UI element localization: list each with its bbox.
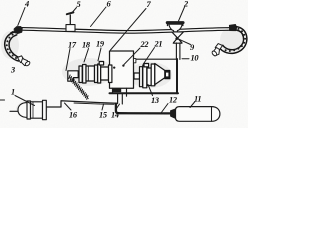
node: fitting below block xyxy=(113,88,121,92)
svg-text:19: 19 xyxy=(96,40,105,49)
node: spiral dots on left hose xyxy=(6,34,17,59)
svg-text:22: 22 xyxy=(140,40,149,49)
node: flange pair 19 xyxy=(95,65,98,83)
wire: leader 1 xyxy=(15,96,35,106)
wire: leader 13 xyxy=(148,85,153,96)
spring 15 (coiled flexible shaft) xyxy=(69,75,89,99)
box: chamber around atomizer xyxy=(110,59,179,93)
node: nub on block right edge xyxy=(134,59,136,63)
node: fitting at right pipe end xyxy=(229,24,237,30)
node: left stub xyxy=(10,110,18,112)
node: top nub (target of 19) xyxy=(99,62,103,66)
node: right flange at block xyxy=(109,65,112,83)
wire: leader 16 xyxy=(65,103,72,110)
wire: leader 7 xyxy=(111,9,147,51)
node: right hose nozzle xyxy=(211,44,222,57)
wire: leader 21 xyxy=(143,48,155,65)
svg-text:18: 18 xyxy=(82,41,91,50)
svg-text:14: 14 xyxy=(111,111,119,120)
wire 16: flexible shaft from motor xyxy=(47,101,117,107)
pipe 12: corner down to tank line xyxy=(116,104,171,114)
pipe 14: vertical pair below box xyxy=(117,93,119,103)
node: top nub xyxy=(144,64,149,67)
svg-text:11: 11 xyxy=(194,95,201,104)
wire: main horizontal pipe 6 (double line) xyxy=(22,28,232,34)
svg-text:1: 1 xyxy=(11,88,15,97)
node: right cylinder xyxy=(101,67,109,80)
node: dome end xyxy=(18,103,28,118)
svg-text:2: 2 xyxy=(183,0,188,9)
node: pump body xyxy=(86,66,95,81)
wire: right flexible hose 8 (outer+inner curve) xyxy=(219,27,247,54)
wire: left flexible hose 3 (outer+inner curve) xyxy=(5,32,21,61)
node: left hose nozzle xyxy=(18,56,31,67)
wire: lower cable line xyxy=(74,103,114,104)
tank 11 xyxy=(176,107,220,122)
svg-text:10: 10 xyxy=(191,54,200,63)
node: elbow fitting (17) xyxy=(68,71,78,81)
wire: leader 22 xyxy=(124,48,140,65)
node: shaft xyxy=(134,73,140,79)
wire: leader 6 xyxy=(91,7,107,27)
wire: leader 18 xyxy=(84,49,89,63)
wire: leader 19 xyxy=(98,48,101,61)
node: bolt dots inside block (targets of 22) xyxy=(113,66,115,68)
pipe stubs below block xyxy=(113,88,127,104)
wire: leader 12 xyxy=(161,104,168,114)
wire: leader 9 xyxy=(178,39,191,45)
wire: leader 4 xyxy=(18,8,25,26)
node: spiral dots on right hose xyxy=(225,28,247,52)
node: tank inlet fitting xyxy=(171,109,176,119)
valve 9 (bowtie below funnel) xyxy=(172,32,184,43)
wire: leader 11 xyxy=(190,102,195,108)
block 7 (pump housing) xyxy=(110,51,134,88)
wire: leader 17 xyxy=(66,49,70,71)
node: hose fitting at left pipe end xyxy=(11,26,23,33)
pipe 10: vertical from valve down to box xyxy=(176,43,180,59)
svg-text:12: 12 xyxy=(169,96,177,105)
svg-text:16: 16 xyxy=(69,111,78,120)
label 10 xyxy=(182,58,189,60)
wire: leader 14 xyxy=(116,104,120,110)
valve V5 on pipe xyxy=(66,12,75,31)
wire: leader 2 xyxy=(179,7,185,21)
node: flange pair xyxy=(140,67,143,87)
svg-text:5: 5 xyxy=(77,0,81,9)
node: body xyxy=(31,102,43,118)
svg-text:15: 15 xyxy=(99,111,107,120)
node: right flange xyxy=(43,100,47,119)
motor 1 xyxy=(10,100,46,119)
pump assembly 17/18/19 (left of block) xyxy=(68,62,112,84)
node: nozzle tip box xyxy=(165,71,170,79)
paper background xyxy=(0,0,248,128)
atomizer assembly right of block xyxy=(134,64,170,88)
node: left flange xyxy=(27,101,31,119)
node: flange pair 18 xyxy=(79,66,82,83)
wire: leader 15 xyxy=(102,104,104,110)
node: mid section xyxy=(147,68,151,86)
node: cone flange xyxy=(151,64,155,86)
cone 13 xyxy=(155,64,165,85)
svg-text:3: 3 xyxy=(10,66,15,75)
wire: leader 5 xyxy=(73,8,77,13)
svg-text:13: 13 xyxy=(151,96,159,105)
node: edge tick xyxy=(0,99,5,101)
svg-text:17: 17 xyxy=(68,41,77,50)
funnel 2 xyxy=(167,23,183,32)
